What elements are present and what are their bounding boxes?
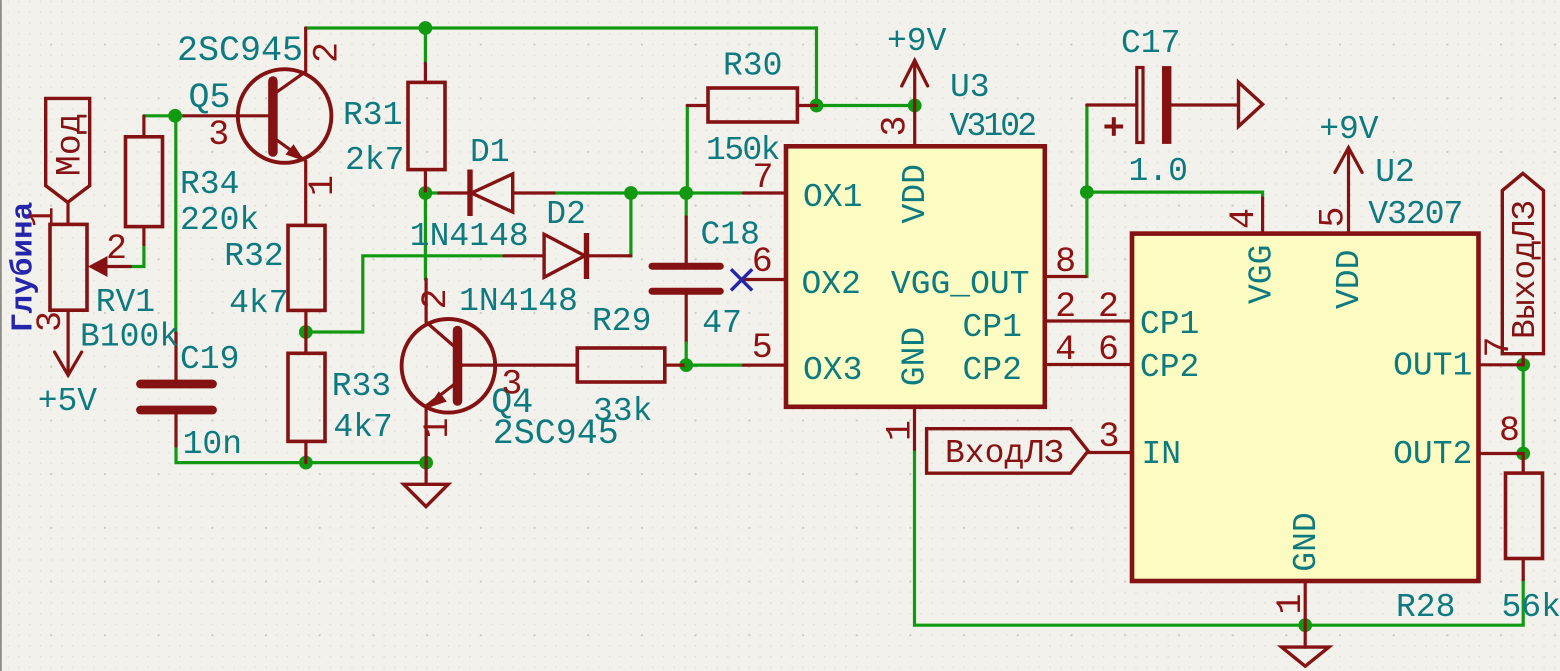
svg-text:47: 47: [702, 305, 742, 342]
resistor R29 33k: [577, 348, 665, 382]
svg-text:10n: 10n: [183, 426, 242, 463]
svg-text:4k7: 4k7: [333, 409, 392, 446]
svg-text:VDD: VDD: [1331, 250, 1368, 309]
svg-text:5: 5: [752, 328, 773, 368]
power +9V U3: [913, 60, 916, 106]
wire net A left (junction to D1): [425, 191, 439, 194]
svg-text:2k7: 2k7: [345, 142, 404, 179]
U2 pin 4 VGG: [1261, 198, 1264, 234]
svg-text:3: 3: [208, 115, 229, 155]
U3 pin 6 OX2: [743, 278, 785, 281]
wire R31 top: [424, 28, 427, 63]
svg-text:V3102: V3102: [950, 108, 1036, 145]
svg-text:R33: R33: [332, 368, 391, 405]
svg-text:1N4148: 1N4148: [410, 218, 529, 255]
wire R29 to OX3: [686, 364, 743, 367]
no-connect X on OX2 pin 6: [731, 269, 752, 290]
junction at OUT1 / R28 node: [1516, 358, 1530, 372]
ground under Q4: [425, 463, 428, 485]
wire Q5 base: [144, 114, 184, 117]
svg-text:3: 3: [876, 115, 916, 136]
svg-text:2SC945: 2SC945: [177, 31, 303, 71]
svg-text:1: 1: [303, 175, 343, 196]
U3 pin 3 VDD: [913, 106, 916, 147]
svg-text:6: 6: [752, 242, 773, 282]
wire R31 bottom to Q4 collector: [424, 193, 427, 279]
svg-text:ВходЛЗ: ВходЛЗ: [945, 435, 1064, 472]
IC U2 V3207 body: [1132, 234, 1479, 581]
svg-text:VDD: VDD: [897, 164, 934, 223]
svg-text:OUT1: OUT1: [1393, 348, 1472, 385]
U2 pin 7 OUT1: [1479, 363, 1524, 366]
junction at U2 GND on ground rail: [1298, 618, 1312, 632]
U2 pin 8 OUT2: [1479, 452, 1524, 455]
junction at C18 bottom / R29 / OX3 node: [679, 358, 693, 372]
svg-text:4k7: 4k7: [229, 285, 288, 322]
potentiometer RV1 B100k: [50, 224, 87, 310]
wire CP2 U3 pin4 to U2 pin6: [1044, 363, 1132, 366]
svg-text:V3207: V3207: [1368, 196, 1462, 233]
wire top rail: [306, 28, 817, 106]
svg-text:GND: GND: [1288, 512, 1325, 571]
svg-text:1: 1: [881, 420, 921, 441]
svg-text:OUT2: OUT2: [1393, 436, 1472, 473]
junction at Q5 base / R34 / C19 node: [168, 109, 182, 123]
svg-text:OX1: OX1: [803, 179, 862, 216]
wire C18 top stub: [685, 193, 688, 217]
hierarchical label Mod flag: [46, 98, 90, 202]
wire R30 left down to net A: [686, 106, 689, 194]
svg-text:U3: U3: [950, 69, 990, 106]
svg-text:3: 3: [1099, 417, 1120, 457]
capacitor C17 1.0: [1137, 68, 1143, 143]
resistor R34 220k: [126, 137, 163, 227]
svg-text:6: 6: [1098, 330, 1119, 370]
resistor R31 2k7: [408, 82, 445, 169]
capacitor C19 10n: [141, 380, 213, 389]
svg-text:5: 5: [1314, 206, 1354, 227]
svg-text:8: 8: [1499, 411, 1520, 451]
svg-text:VGG: VGG: [1243, 245, 1280, 304]
svg-text:OX2: OX2: [802, 266, 861, 303]
svg-text:U2: U2: [1375, 154, 1415, 191]
svg-text:2: 2: [1098, 287, 1119, 327]
svg-text:+9V: +9V: [887, 23, 947, 60]
U3 pin 5 OX3: [743, 364, 785, 367]
svg-text:+5V: +5V: [38, 383, 98, 420]
svg-text:CP2: CP2: [963, 352, 1022, 389]
svg-text:VGG_OUT: VGG_OUT: [891, 266, 1030, 303]
wire net A right (D1 to pin OX1): [554, 191, 743, 194]
wire U3 GND to bottom rail: [915, 449, 1524, 625]
wire OUT1 to OUT2: [1522, 365, 1525, 454]
svg-text:+9V: +9V: [1319, 111, 1379, 148]
svg-text:R34: R34: [180, 166, 239, 203]
svg-text:4: 4: [1224, 208, 1264, 229]
junction at C18 top / OX1 node: [679, 186, 693, 200]
U3 pin 1 GND: [913, 406, 916, 449]
svg-text:CP1: CP1: [963, 309, 1022, 346]
svg-text:1N4148: 1N4148: [459, 283, 578, 320]
U2 pin 1 GND: [1304, 581, 1307, 625]
resistor R33 4k7: [288, 353, 325, 441]
wire CP1 U3 pin2 to U2 pin2: [1044, 319, 1132, 322]
svg-text:R30: R30: [723, 48, 782, 85]
junction at R33 bottom on ground rail: [299, 456, 313, 470]
svg-text:R31: R31: [343, 97, 402, 134]
svg-text:CP1: CP1: [1140, 306, 1199, 343]
svg-text:33k: 33k: [593, 393, 652, 430]
wire net A to D2 branch: [628, 193, 631, 256]
svg-text:ВыходЛЗ: ВыходЛЗ: [1507, 200, 1544, 339]
svg-text:1: 1: [418, 417, 458, 438]
svg-text:R32: R32: [224, 238, 283, 275]
hierarchical label VyhodLZ flag: [1502, 173, 1543, 353]
junction at R30 right / +9V rail corner: [810, 99, 824, 113]
U3 pin 7 OX1: [743, 191, 785, 194]
ground under U2: [1304, 625, 1307, 648]
svg-text:7: 7: [753, 158, 774, 198]
resistor R30 150k: [708, 88, 797, 122]
IC U3 V3102 body: [786, 146, 1045, 407]
svg-text:Мод: Мод: [51, 113, 91, 176]
svg-text:IN: IN: [1141, 436, 1181, 473]
svg-text:RV1: RV1: [96, 284, 155, 321]
hierarchical label VhodLZ flag: [927, 429, 1089, 474]
svg-text:3: 3: [31, 311, 71, 332]
svg-text:C17: C17: [1121, 25, 1180, 62]
svg-text:220k: 220k: [180, 202, 259, 239]
svg-text:D2: D2: [546, 196, 586, 233]
power +5V: [66, 310, 69, 375]
junction at R31 top on +9V rail: [419, 21, 433, 35]
wire VGG_OUT to C17: [1086, 105, 1087, 277]
wire +9V to R30 junction: [817, 104, 915, 107]
wire RV1 wiper to R34: [131, 245, 144, 267]
svg-text:4: 4: [1055, 330, 1076, 370]
open arrow at C17 right: [1239, 82, 1263, 126]
svg-text:56k: 56k: [1502, 589, 1560, 626]
wire C19 bottom to ground rail: [176, 445, 426, 463]
junction at OUT2 / R28 top: [1516, 447, 1530, 461]
wire node Q5 base down to C19: [174, 116, 177, 333]
wire C17 junction to U2 VGG pin: [1087, 192, 1263, 198]
svg-text:3: 3: [501, 364, 522, 404]
svg-text:Q5: Q5: [189, 78, 231, 118]
junction at U3 VDD pin / +9V: [908, 99, 922, 113]
svg-text:OX3: OX3: [803, 352, 862, 389]
capacitor C18 47: [652, 263, 720, 270]
svg-text:R29: R29: [592, 303, 651, 340]
power +9V U2: [1347, 148, 1350, 234]
transistor Q4 2SC945: [402, 319, 496, 413]
junction at R31 bottom / D1 / Q4 collector: [419, 186, 433, 200]
svg-text:CP2: CP2: [1140, 349, 1199, 386]
svg-text:2: 2: [1055, 287, 1076, 327]
diode D2 1N4148: [504, 254, 544, 257]
junction at Q4 emitter / ground: [419, 456, 433, 470]
svg-text:1.0: 1.0: [1129, 153, 1188, 190]
svg-text:2: 2: [416, 288, 456, 309]
resistor R28 56k: [1506, 473, 1543, 558]
svg-text:R28: R28: [1396, 589, 1455, 626]
junction at C17 left / VGG_OUT node: [1080, 185, 1094, 199]
svg-text:B100k: B100k: [80, 319, 179, 356]
junction at R32/R33 divider node: [299, 325, 313, 339]
svg-text:2: 2: [106, 229, 127, 269]
svg-text:C19: C19: [180, 341, 239, 378]
svg-text:2: 2: [308, 42, 348, 63]
svg-text:8: 8: [1055, 242, 1076, 282]
svg-text:GND: GND: [897, 327, 934, 386]
junction at D2 cathode branch on node A: [624, 186, 638, 200]
svg-text:D1: D1: [470, 134, 510, 171]
diode D1 1N4148: [439, 191, 468, 194]
svg-text:7: 7: [1479, 336, 1519, 357]
svg-text:1: 1: [1271, 593, 1311, 614]
U2 pin 3 IN: [1088, 451, 1131, 454]
resistor R32 4k7: [288, 225, 325, 310]
wire D2 anode to R32/R33 junction: [308, 256, 505, 332]
transistor Q5 2SC945: [238, 69, 332, 163]
U3 pin 8 VGG_OUT: [1044, 275, 1086, 278]
svg-text:1: 1: [24, 206, 64, 227]
